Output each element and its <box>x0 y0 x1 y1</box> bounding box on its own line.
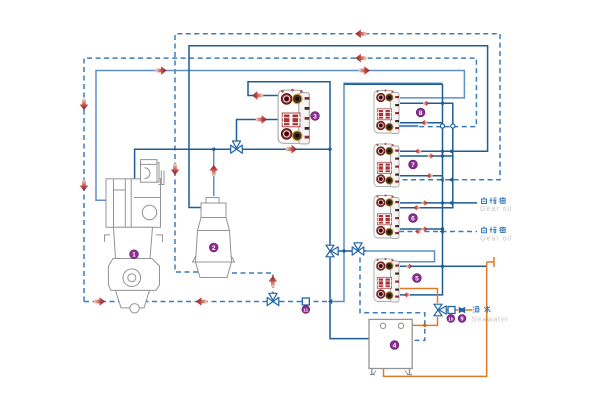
wire: unit8 line to manifold M2 x452.8 down to unit6 y207.7 <box>400 103 453 207</box>
flow diamond left on gear oil dashed line 2 <box>415 229 421 235</box>
flow diamond left on unit6 second line <box>414 205 420 211</box>
flow diamond left on unit7 top line <box>415 148 421 154</box>
svg-text:4: 4 <box>393 342 397 349</box>
wire: orange from seawater valve down to tank top port <box>404 317 438 325</box>
wire: orange seawater outlet stubs through fittings <box>441 309 448 311</box>
flow arrow left on bottom dashed return <box>196 297 207 306</box>
flow arrow right on engine outlet line <box>286 145 297 154</box>
wire: orange capped stub at top of drop <box>487 261 494 263</box>
flow arrow right on engine supply line (east) <box>359 66 370 75</box>
flow arrow right on engine supply line <box>155 66 166 75</box>
wire: dashed return line from purifier loop (top) x175/y33.8 to x500 down to unit7 bottom y179.7 <box>175 34 500 272</box>
flow arrow down on left dashed riser (lower) <box>80 180 89 191</box>
wire: dashed gear oil line 2 from unit6 bottom y231.5 <box>399 231 477 233</box>
svg-text:1: 1 <box>132 252 136 259</box>
flow diamond left on unit5 return line <box>404 292 410 298</box>
junction dot orange <box>423 324 426 327</box>
badge 7 cooler <box>409 160 418 169</box>
valve V1 three-way on main vertical (330,251) <box>326 245 338 257</box>
wire: light blue supply from engine left x96 via y70.5 to x464.4 down to unit8 top y97.9 <box>96 71 464 201</box>
flow arrow left on unit3 outlet <box>252 91 263 100</box>
junction arrowhead marks on dashed lines <box>440 177 444 182</box>
badge 11 drain fitting <box>302 306 310 314</box>
valve V2 three-way (358,251) <box>352 243 364 255</box>
wire: light box manifold left riser x344 <box>331 83 443 301</box>
flow arrow down on purifier dashed riser <box>171 164 180 175</box>
badge 8 cooler <box>416 108 425 117</box>
heat exchanger unit 7 <box>374 143 399 187</box>
badge 10 seawater strainer <box>447 315 455 323</box>
badge 1 main engine <box>130 250 139 259</box>
junction dots <box>212 102 453 268</box>
wire: dark box manifold top y84 <box>344 83 443 85</box>
svg-text:7: 7 <box>411 162 415 169</box>
wire: dashed from valve V2 down x360 to tank right side <box>360 258 425 341</box>
fitting bowtie no.9 (462,310) <box>459 307 465 313</box>
heat exchanger unit 8 <box>374 89 399 133</box>
flow diamond right on unit7 second line <box>428 153 434 159</box>
flow arrow up on purifier feed riser <box>209 165 218 176</box>
wire: light U-turn pipe from V2 into unit5 top <box>366 251 435 262</box>
flow diamond left on unit7 lower line <box>427 173 433 179</box>
wire: valve V1 to valve V2 line y251 <box>330 250 366 252</box>
open flange circles on dashed y126 <box>440 124 444 128</box>
svg-text:Gear oil: Gear oil <box>480 204 512 213</box>
badge 4 tank <box>390 341 399 350</box>
badge 5 cooler <box>413 274 422 283</box>
wire: unit8 bottom light stub y126 <box>398 125 419 127</box>
badge 6 cooler <box>409 214 418 223</box>
wire: dashed segment purifier right to valve V3 riser <box>232 273 273 296</box>
flow arrow left on second dashed return <box>355 54 366 63</box>
flow arrow down on left dashed riser (upper) <box>80 99 89 110</box>
tank no.4 <box>369 319 412 374</box>
svg-text:6: 6 <box>411 215 415 222</box>
wire: purifier feed riser x213.75 from y149.2 <box>213 149 215 196</box>
wire: unit5 line y266.3 to orange drop x486.7 <box>400 265 487 267</box>
wire: unit7 lower line y175.8 to M1 <box>400 175 443 177</box>
flow arrow right on unit3 inlet <box>256 115 267 124</box>
wire: main vertical x330 below valve V1 to tank left <box>330 258 369 339</box>
fitting square no.11 (305.8,301.5) <box>302 298 309 305</box>
svg-text:10: 10 <box>448 316 454 322</box>
svg-text:8: 8 <box>419 110 423 117</box>
wire: orange from unit5 to seawater valve <box>400 289 438 304</box>
wire: orange drain line from x486.7 down around to tank bottom <box>384 262 487 376</box>
wire: valve V4 riser to unit3 lower port y119.5 <box>237 120 284 145</box>
badge 9 seawater valve fitting <box>458 315 466 323</box>
wire: unit6 gear oil line 1 y202.9 <box>400 202 477 204</box>
label: gear oil 2 (CJK pseudo-glyphs) <box>481 226 505 233</box>
flow diamond right on unit5 outlet line <box>406 263 412 269</box>
flow arrow right on bottom dashed return <box>94 297 105 306</box>
badge 2 purifier <box>209 243 218 252</box>
label: gear oil 1 (CJK pseudo-glyphs) <box>481 197 505 204</box>
label: seawater (CJK pseudo-glyphs) <box>473 306 491 313</box>
heat exchanger unit 3 <box>278 89 309 144</box>
wire: dark manifold M1 x442.5 down to unit5 bottom y294.9 <box>400 84 443 295</box>
wire: unit6 lower line y229 to M1 <box>400 228 443 230</box>
svg-text:2: 2 <box>212 245 216 252</box>
valve V4 three-way on engine outlet (236.5,149.2) <box>231 141 243 153</box>
heat exchanger unit 6 <box>374 194 399 238</box>
purifier no.2 <box>193 198 235 278</box>
flow arrow left on top dashed return <box>355 29 366 38</box>
wire: dark supply from purifier left riser x189 via y45.8 to x487.6 down to unit7 top y151.3 <box>189 46 488 208</box>
engine M/E no.1 <box>105 160 165 313</box>
heat exchanger unit 5 <box>374 258 399 302</box>
wire: unit8 lower line y122.7 to M1 <box>400 122 443 124</box>
svg-text:Gear oil: Gear oil <box>480 233 512 242</box>
flow diamond right on unit8 line B <box>423 100 429 106</box>
fitting square no.10 (451.5,310) <box>448 307 455 314</box>
wire: unit3 outlet loop top y81.7 to main vertical x330 down to valve V1 and tank <box>248 82 330 245</box>
badge 3 cooler <box>311 112 320 121</box>
svg-text:5: 5 <box>415 275 419 282</box>
svg-text:3: 3 <box>313 113 317 120</box>
flow diamond right on gear oil line 1 <box>422 200 428 206</box>
wire: dashed bottom return y301.5 from x84 to junction x331 <box>84 301 331 303</box>
valve V3 three-way on dashed return (273,301.5) <box>267 293 279 305</box>
wire: unit7 second line y156 to M2 <box>400 155 453 157</box>
flow arrow up on valve V3 riser <box>268 276 277 287</box>
flow diamond right on unit6 lower line <box>422 226 428 232</box>
svg-text:Seawater: Seawater <box>472 315 510 324</box>
wire: dashed return line left frame x84 from y58.1 right to x476.4 down to unit8 bottom y126.6 <box>84 58 476 301</box>
wire: engine top outlet y149.2 to x331 with valve V4 branch <box>135 149 331 179</box>
flow diamond left on unit8 line C <box>421 120 427 126</box>
svg-text:11: 11 <box>303 307 308 313</box>
valve seawater three-way (438,310) <box>434 304 446 316</box>
